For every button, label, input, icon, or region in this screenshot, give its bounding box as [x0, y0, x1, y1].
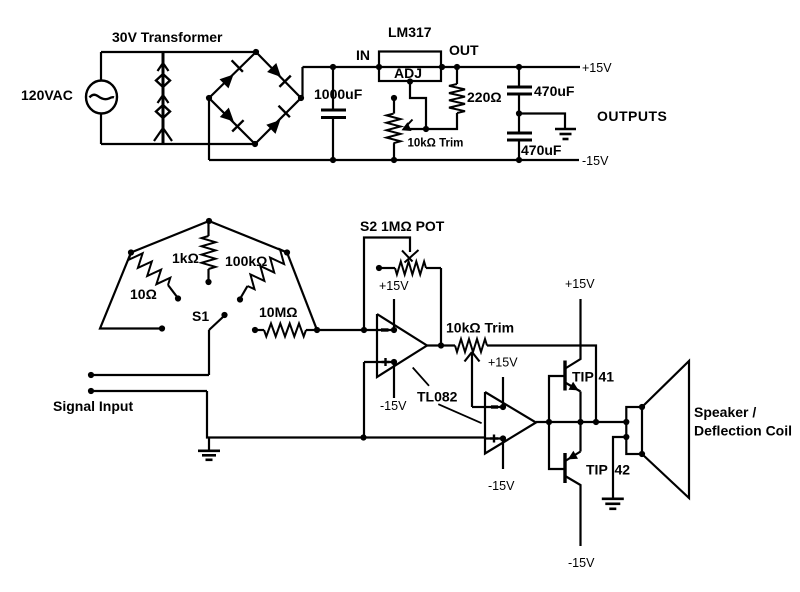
- svg-text:41: 41: [599, 369, 615, 385]
- svg-text:-15V: -15V: [568, 556, 595, 570]
- speaker / deflection coil: [626, 407, 642, 454]
- trimmer R2 10k: [391, 95, 397, 101]
- svg-text:220Ω: 220Ω: [467, 89, 502, 105]
- wire U2B output node: [536, 421, 626, 423]
- wire input ground rail: [207, 391, 485, 438]
- op-amp U2B TL082: [485, 392, 536, 454]
- AC source V1 120VAC: [100, 52, 102, 82]
- wire ADJ pin: [410, 82, 426, 130]
- svg-text:-15V: -15V: [582, 154, 609, 168]
- capacitor C3 470uF bottom: [518, 114, 520, 133]
- wire S1 right outline: [287, 253, 317, 331]
- svg-text:-15V: -15V: [380, 399, 407, 413]
- wire bridge right up: [301, 67, 303, 98]
- wire to supply ground: [519, 114, 565, 129]
- svg-text:S1: S1: [192, 308, 209, 324]
- svg-text:Deflection Coil: Deflection Coil: [694, 423, 792, 439]
- ground speaker: [602, 497, 624, 500]
- svg-text:LM317: LM317: [388, 24, 432, 40]
- signal input terminals: [88, 372, 94, 378]
- svg-text:10kΩ Trim: 10kΩ Trim: [446, 320, 514, 336]
- svg-text:10Ω: 10Ω: [130, 286, 157, 302]
- node gain network top: [206, 218, 212, 224]
- svg-text:+15V: +15V: [582, 61, 612, 75]
- ground input: [208, 438, 210, 450]
- svg-text:Speaker /: Speaker /: [694, 404, 756, 420]
- wire TIP41 base drive: [549, 376, 564, 422]
- wire fan left: [131, 221, 209, 253]
- svg-text:ADJ: ADJ: [394, 65, 422, 81]
- wire negative rail: [209, 159, 579, 161]
- svg-text:S2 1MΩ POT: S2 1MΩ POT: [360, 218, 445, 234]
- resistor 1k: [207, 221, 209, 236]
- svg-text:+15V: +15V: [379, 279, 409, 293]
- svg-text:100kΩ: 100kΩ: [225, 253, 267, 269]
- diode D4 bottom-right: [266, 120, 280, 134]
- svg-text:TL082: TL082: [417, 389, 458, 405]
- wire speaker ground: [613, 437, 626, 498]
- wire bottom AC rail: [101, 143, 255, 145]
- svg-text:1kΩ: 1kΩ: [172, 250, 199, 266]
- diode D2 top-right: [267, 63, 281, 77]
- wire trim output: [487, 346, 596, 423]
- wire +15V pin U2A: [393, 299, 395, 330]
- trim wiper to U2B: [471, 353, 473, 407]
- svg-text:OUT: OUT: [449, 42, 479, 58]
- diode D1 top-left: [220, 75, 234, 89]
- potentiometer 1M: [376, 265, 382, 271]
- wire S2 feedback loop: [364, 238, 410, 331]
- resistor 100k: [248, 249, 288, 289]
- wire -15V pin U2A: [393, 362, 395, 398]
- wire +15V pin U2B: [502, 377, 504, 407]
- svg-text:+15V: +15V: [488, 356, 518, 370]
- node output to speaker: [593, 419, 599, 425]
- svg-text:1000uF: 1000uF: [314, 86, 363, 102]
- svg-text:TIP: TIP: [586, 462, 608, 478]
- node bridge right: [298, 95, 304, 101]
- wire TIP42 base drive: [549, 422, 564, 469]
- svg-text:470uF: 470uF: [521, 142, 562, 158]
- ground supply mid: [555, 128, 576, 131]
- resistor R1 220: [454, 64, 460, 70]
- transistor Q2 TIP42: [563, 453, 566, 483]
- node bridge left: [206, 95, 212, 101]
- wire U2A output: [427, 344, 455, 346]
- node inverting input: [361, 327, 367, 333]
- wire -15V pin U2B: [502, 439, 504, 470]
- svg-text:470uF: 470uF: [534, 83, 575, 99]
- node ADJ junction: [423, 126, 429, 132]
- trimmer 10k gain: [455, 339, 487, 352]
- bridge rectifier diamond: [209, 52, 301, 144]
- wire fan right: [209, 221, 287, 253]
- wire positive rail: [303, 66, 581, 68]
- node ground rail junction: [360, 434, 366, 440]
- wire top AC rail: [101, 51, 256, 53]
- wire plus input to ground rail: [363, 362, 365, 438]
- svg-text:42: 42: [615, 462, 631, 478]
- wire pot to output: [440, 268, 442, 346]
- transistor Q1 TIP41: [563, 361, 566, 391]
- resistor 10M: [252, 327, 258, 333]
- svg-text:10kΩ Trim: 10kΩ Trim: [408, 138, 464, 150]
- diode D3 bottom-left: [220, 108, 234, 122]
- op-amp U2A TL082: [377, 314, 427, 377]
- svg-text:OUTPUTS: OUTPUTS: [597, 108, 667, 124]
- svg-text:-15V: -15V: [488, 479, 515, 493]
- node bridge top: [253, 49, 259, 55]
- svg-text:+15V: +15V: [565, 277, 595, 291]
- svg-text:30V Transformer: 30V Transformer: [112, 29, 223, 45]
- svg-text:120VAC: 120VAC: [21, 87, 73, 103]
- svg-text:10MΩ: 10MΩ: [259, 304, 297, 320]
- wire bridge left to negative rail: [208, 98, 210, 160]
- resistor 10: [129, 253, 171, 286]
- wire S1 left outline: [100, 253, 162, 329]
- svg-text:Signal Input: Signal Input: [53, 398, 133, 414]
- svg-text:TIP: TIP: [572, 369, 594, 385]
- capacitor C1 1000uF: [332, 67, 334, 109]
- wire 10M to opamp: [317, 329, 364, 331]
- node bridge bottom: [252, 141, 258, 147]
- regulator U1 LM317: [379, 52, 441, 82]
- capacitor C2 470uF top: [516, 64, 522, 70]
- svg-text:IN: IN: [356, 47, 370, 63]
